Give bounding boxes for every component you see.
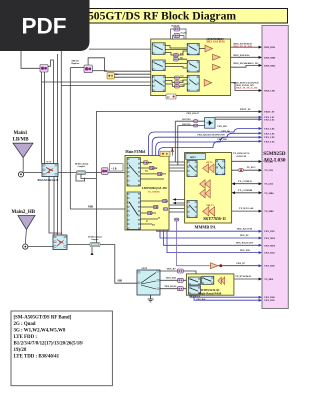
svg-text:PRX_B12/17: PRX_B12/17 <box>187 113 200 115</box>
svg-text:PRX_B28: PRX_B28 <box>218 126 228 128</box>
svg-text:PRX_MB6: PRX_MB6 <box>264 238 276 240</box>
svg-text:[SM-A505GT/DS RF Band]: [SM-A505GT/DS RF Band] <box>14 316 72 321</box>
svg-text:PRX_B39: PRX_B39 <box>240 250 251 252</box>
ground below SP4T <box>148 295 154 302</box>
filter F16 <box>163 199 168 202</box>
svg-text:(3x41): (3x41) <box>181 31 187 34</box>
amplifier LNA2 <box>213 54 221 60</box>
wire <box>194 295 259 300</box>
svg-text:TX_B/2/5/+66: TX_B/2/5/+66 <box>239 207 254 210</box>
svg-text:DRX_MB0: DRX_MB0 <box>264 57 276 59</box>
wire <box>92 70 107 72</box>
svg-text:+9/26/5/28: +9/26/5/28 <box>236 156 247 158</box>
svg-text:DRX LNA FEM: DRX LNA FEM <box>207 41 226 44</box>
wire <box>108 172 125 174</box>
wire <box>49 177 57 234</box>
svg-text:S5M925D: S5M925D <box>263 151 286 157</box>
switch SW4 <box>187 43 199 54</box>
wire <box>235 183 259 185</box>
svg-text:TRX_B7: TRX_B7 <box>167 268 177 271</box>
switch SW10 <box>187 200 197 217</box>
wire <box>160 230 259 238</box>
wire <box>179 78 187 87</box>
svg-text:PRX_HB5: PRX_HB5 <box>264 231 275 233</box>
MIPI box <box>186 153 206 159</box>
pin DRX_LB0 of U1 <box>259 89 276 93</box>
svg-text:2G : Quad: 2G : Quad <box>14 322 36 327</box>
svg-text:TX_LB9: TX_LB9 <box>264 170 273 172</box>
pin PRX_HB4 of U1 <box>259 251 276 255</box>
svg-text:LB PA: LB PA <box>206 161 213 164</box>
switch SW1 <box>152 43 165 55</box>
pin PRX_MB0 of U1 <box>259 244 276 248</box>
wire <box>165 78 174 87</box>
svg-text:TX_LB0: TX_LB0 <box>264 162 273 164</box>
coupler CP2 bi-directional <box>90 243 100 247</box>
svg-text:PRX_B40: PRX_B40 <box>197 299 206 301</box>
wire <box>24 172 43 174</box>
power amplifier PA2 <box>200 180 211 189</box>
filter F5 <box>175 85 180 88</box>
filter F7 B38/41 <box>174 27 180 31</box>
wire <box>165 46 187 56</box>
svg-text:B12/17: B12/17 <box>146 162 151 164</box>
wire <box>42 81 151 83</box>
wire <box>140 201 162 224</box>
power amplifier PA4 HB <box>203 207 215 216</box>
ground coupler2 arrow <box>90 252 93 255</box>
svg-text:PRX_B34/4: PRX_B34/4 <box>190 296 200 298</box>
pin PRX_HB0 of U1 <box>259 296 276 300</box>
filter F2 <box>174 58 179 61</box>
arrow TX_COMLB <box>232 182 235 185</box>
filter F3 <box>175 76 180 79</box>
svg-text:Main2_HB: Main2_HB <box>12 210 36 215</box>
wire <box>149 129 259 187</box>
wire <box>235 192 259 194</box>
svg-text:TX_B2-5: TX_B2-5 <box>247 167 257 169</box>
svg-text:B26: B26 <box>115 74 118 76</box>
pin PRX_LB4 of U1 <box>259 140 276 144</box>
svg-text:TX_MB6: TX_MB6 <box>264 211 274 213</box>
wire <box>177 221 211 266</box>
wire <box>199 65 259 67</box>
wire <box>67 244 90 246</box>
filter F15 <box>158 172 163 175</box>
wire <box>76 174 85 181</box>
svg-text:DRX_B2/34b/B66/2_W2: DRX_B2/34b/B66/2_W2 <box>234 62 260 65</box>
filter F23 <box>178 269 184 273</box>
svg-text:505GT/DS RF Block Diagram: 505GT/DS RF Block Diagram <box>88 10 236 23</box>
wire <box>156 137 259 198</box>
amplifier LNA3 <box>213 64 221 70</box>
switch SW13 <box>188 286 200 294</box>
wire <box>199 48 205 50</box>
wire <box>160 271 196 276</box>
wire <box>48 60 54 164</box>
wire <box>89 48 151 50</box>
filter F6 B7 <box>166 94 176 99</box>
wire <box>86 172 102 174</box>
svg-text:PRX_HB4: PRX_HB4 <box>264 253 275 255</box>
wire <box>53 177 55 236</box>
svg-text:PRX_HB6: PRX_HB6 <box>264 266 275 268</box>
pin TX_LB4 of U1 <box>259 182 274 186</box>
svg-text:B7: B7 <box>146 221 148 223</box>
svg-text:LMSW8KQG5-J50: LMSW8KQG5-J50 <box>142 186 168 190</box>
wire <box>100 245 137 284</box>
wire <box>164 230 259 245</box>
test point arrow on FEMid top <box>171 148 174 156</box>
switch U8 SP4T <box>137 270 160 295</box>
switch SW12 <box>188 277 200 285</box>
wire <box>190 295 259 297</box>
wire <box>160 288 188 290</box>
switch SW14 <box>202 276 214 284</box>
svg-text:TX_HB0: TX_HB0 <box>264 279 274 281</box>
pin DRX_MB0 of U1 <box>259 56 277 60</box>
wire <box>175 121 178 165</box>
svg-text:PRXT_IN: PRXT_IN <box>264 112 274 114</box>
antenna ANT1 Main1 <box>13 143 33 172</box>
svg-text:TX_B7/34/40/41: TX_B7/34/40/41 <box>235 276 252 278</box>
pin PRX_HB5 of U1 <box>259 230 276 234</box>
wire <box>212 83 259 91</box>
svg-text:B41: B41 <box>181 76 184 78</box>
svg-text:B20/26: B20/26 <box>152 168 157 170</box>
wire <box>140 163 166 180</box>
svg-text:B39: B39 <box>180 53 183 55</box>
svg-text:B8: B8 <box>160 174 162 176</box>
pin DRX_MB2 of U1 <box>259 64 277 68</box>
svg-text:PRXT_IN: PRXT_IN <box>240 108 251 111</box>
svg-text:B1: B1 <box>166 201 168 203</box>
pin TX_LB0 of U1 <box>259 160 274 164</box>
svg-text:TRX_B34/9: TRX_B34/9 <box>164 285 177 288</box>
svg-text:B66: B66 <box>152 224 155 226</box>
svg-text:MMMB PA: MMMB PA <box>195 224 216 229</box>
wire <box>152 133 259 192</box>
svg-text:~ LB: ~ LB <box>111 167 117 170</box>
filter F9 diplexer <box>102 168 109 175</box>
svg-text:PRX_LB4: PRX_LB4 <box>264 141 275 143</box>
switch SW8 ASM2 <box>127 192 140 230</box>
node PRX_B7 dot <box>220 264 223 267</box>
PDF badge overlay <box>0 0 90 51</box>
svg-text:PRX_B26: PRX_B26 <box>218 139 228 141</box>
pin TX_LB9 of U1 <box>259 169 274 173</box>
wire <box>61 85 150 87</box>
svg-text:B3: B3 <box>156 207 158 209</box>
svg-text:PRX_LB9: PRX_LB9 <box>264 137 275 139</box>
svg-text:19)/28: 19)/28 <box>14 348 27 353</box>
IC U1 S5M925D RF transceiver <box>262 26 288 309</box>
switch SW6 <box>187 75 199 91</box>
pin TX_MB0 of U1 <box>259 191 275 195</box>
svg-text:HB: HB <box>118 279 122 283</box>
wire <box>176 200 185 204</box>
pin PRX_HB2 of U1 <box>259 299 276 303</box>
filter F17 <box>154 205 159 208</box>
svg-text:Coupler: Coupler <box>78 166 86 168</box>
wire <box>159 141 259 204</box>
wire <box>41 72 43 164</box>
svg-text:PRX_LB0: PRX_LB0 <box>264 129 275 131</box>
wire <box>70 68 125 209</box>
pin TX_HB0 of U1 <box>259 278 274 282</box>
svg-text:LB/MB: LB/MB <box>13 138 30 143</box>
arrow TX2 into FEMid <box>173 202 177 205</box>
coupler CP1 bi-directional <box>77 171 86 175</box>
matching network box <box>110 164 124 171</box>
wire <box>21 51 40 68</box>
wire <box>169 162 185 171</box>
svg-text:TX_COMLB: TX_COMLB <box>238 180 252 183</box>
svg-text:DRX_HB0: DRX_HB0 <box>264 47 275 49</box>
svg-text:LTE FDD :: LTE FDD : <box>14 335 38 340</box>
power amplifier PA3 <box>200 189 211 198</box>
amplifier LNA4 <box>204 79 212 86</box>
wire <box>234 278 259 280</box>
filter F4 <box>175 81 180 84</box>
filter F8 B41 <box>174 34 180 38</box>
svg-text:B66: B66 <box>181 84 184 86</box>
component mini box on FEMid top <box>160 151 170 156</box>
svg-text:B40 TRX: B40 TRX <box>182 124 191 126</box>
wire <box>58 172 77 174</box>
svg-text:PDF: PDF <box>22 14 67 39</box>
svg-text:DPDT: DPDT <box>56 232 63 235</box>
wire <box>232 210 259 212</box>
module U9 High-Band PAM <box>186 274 234 295</box>
svg-text:PRX_B20/26/5/18/19/W5/W8: PRX_B20/26/5/18/19/W5/W8 <box>198 135 226 137</box>
wire <box>218 265 259 267</box>
wire <box>91 247 93 252</box>
module U5 Main FEMid <box>125 156 169 231</box>
pin PRX_LB1 of U1 <box>259 116 276 120</box>
filter F13 <box>144 161 149 164</box>
pin PRX_LB2 of U1 <box>259 118 276 122</box>
svg-text:PRX_B7: PRX_B7 <box>237 263 246 265</box>
svg-text:Main1: Main1 <box>14 131 28 136</box>
wire <box>44 72 46 164</box>
switch SW7 ASM1 <box>127 158 140 187</box>
module U2 DRX LNA FEM <box>151 38 231 96</box>
switch SW3 <box>152 75 165 91</box>
amplifier LNA5 <box>211 263 219 269</box>
power amplifier PA1 LB <box>203 164 214 173</box>
wire <box>215 117 259 119</box>
filter F10 <box>40 65 48 73</box>
filter F22 <box>194 124 198 127</box>
pin PRXT_IN of U1 <box>259 110 275 114</box>
wire <box>70 67 84 69</box>
arrow TX into FEMid <box>173 198 177 201</box>
wire <box>220 56 259 58</box>
svg-text:SP4T: SP4T <box>142 267 148 270</box>
svg-text:PRX_LB2: PRX_LB2 <box>264 119 275 121</box>
component U7 RX SAW <box>205 118 215 129</box>
pin PRX_LB6 of U1 <box>259 132 276 136</box>
svg-text:PRX_HB2: PRX_HB2 <box>264 300 275 302</box>
switch U3 SP10 BGSX22K5A10 <box>42 164 58 177</box>
filter F1 <box>174 53 179 56</box>
filter F11 MB-LB diplexer <box>84 65 92 73</box>
svg-text:SP10: SP10 <box>46 161 52 164</box>
svg-text:TX_COMMB: TX_COMMB <box>238 189 253 192</box>
wire <box>225 169 259 171</box>
wire <box>114 76 151 78</box>
pin DRX_HB0 of U1 <box>259 46 276 50</box>
svg-text:DRX_B34/W34: DRX_B34/W34 <box>234 54 251 57</box>
svg-text:MIPI: MIPI <box>190 156 196 159</box>
svg-text:Diplexer: Diplexer <box>72 63 80 65</box>
pin PRX_LB9 of U1 <box>259 136 276 140</box>
svg-text:B4: B4 <box>158 217 160 219</box>
svg-text:TRX_B41: TRX_B41 <box>166 277 177 280</box>
svg-text:DRX_LB0: DRX_LB0 <box>264 91 275 93</box>
label Main1 LB/MB <box>13 131 30 143</box>
filter F24 <box>178 278 184 282</box>
wire <box>167 230 259 253</box>
svg-text:PRX_HB0: PRX_HB0 <box>264 297 275 299</box>
amplifier LNA1 <box>205 45 213 52</box>
svg-text:PRX_B3/4/5/1/66: PRX_B3/4/5/1/66 <box>236 243 254 245</box>
switch U4 DPDT <box>53 235 67 250</box>
arrow TX_COMMB <box>232 191 235 194</box>
svg-text:PRX_B1: PRX_B1 <box>240 235 249 237</box>
svg-text:B(38/41): B(38/41) <box>172 24 180 27</box>
power amplifier PA5 HB <box>218 277 225 284</box>
wire <box>157 230 259 231</box>
wire <box>178 125 205 127</box>
svg-text:SKY77656-11: SKY77656-11 <box>203 217 226 221</box>
svg-text:MB PA: MB PA <box>207 204 215 207</box>
filter F21 <box>194 120 198 123</box>
wire <box>169 205 185 212</box>
note box RF bands <box>11 311 112 386</box>
svg-text:TX_LB4: TX_LB4 <box>264 184 273 186</box>
svg-text:B41 TRX: B41 TRX <box>182 119 191 121</box>
filter F12 <box>107 73 114 79</box>
svg-text:PRX_B2/5/1/66: PRX_B2/5/1/66 <box>237 228 253 230</box>
svg-text:Coupler: Coupler <box>91 239 99 241</box>
node feed1 <box>18 172 23 177</box>
module U6 MMMB PA SKY77656-11 <box>185 153 232 224</box>
wire <box>160 279 188 281</box>
wire <box>114 73 151 75</box>
switch SW9 <box>187 161 197 177</box>
svg-text:B34: B34 <box>181 80 184 82</box>
wire <box>97 111 259 242</box>
svg-text:PRX_MB0: PRX_MB0 <box>264 245 276 247</box>
pin PRX_LB0 of U1 <box>259 127 276 131</box>
wire <box>81 174 97 178</box>
wire <box>225 160 259 162</box>
filter F25 <box>178 287 184 291</box>
pin PRX_HB6 of U1 <box>259 264 276 268</box>
svg-text:DRX_MB2: DRX_MB2 <box>264 65 276 67</box>
switch SW5 <box>187 61 199 72</box>
pin TX_MB6 of U1 <box>259 210 275 214</box>
title bar <box>86 9 288 24</box>
switch SW11 <box>216 160 225 175</box>
wire <box>88 58 151 71</box>
filter F20 <box>175 218 179 221</box>
svg-text:DRX_T9_39_45D: DRX_T9_39_45D <box>234 45 252 48</box>
svg-text:PRX_B8: PRX_B8 <box>222 131 231 133</box>
svg-text:PRX_LB6: PRX_LB6 <box>264 133 275 135</box>
wire <box>57 54 59 235</box>
svg-text:Main FEMid: Main FEMid <box>125 150 145 154</box>
wire <box>213 47 259 48</box>
wire <box>28 246 53 248</box>
svg-text:TX_AND/M2: TX_AND/M2 <box>148 191 160 194</box>
switch SW2 <box>152 60 165 71</box>
wire <box>175 120 204 122</box>
wire <box>165 59 187 68</box>
svg-text:BGSX22K5A10: BGSX22K5A10 <box>38 178 59 182</box>
component C1 red dot <box>239 169 244 172</box>
wire loop diplexer B38/41 <box>171 29 187 39</box>
svg-text:B28: B28 <box>145 170 148 172</box>
svg-text:B1/2/3/4/7/8/12(17)/13/20/26(5: B1/2/3/4/7/8/12(17)/13/20/26(5/18/ <box>14 342 84 347</box>
svg-text:High-Band PAM: High-Band PAM <box>199 292 222 296</box>
pin PRX_MB6 of U1 <box>259 237 276 241</box>
svg-text:B40: B40 <box>180 58 183 60</box>
svg-text:3G : W1,W2,W4,W5,W8: 3G : W1,W2,W4,W5,W8 <box>14 329 66 334</box>
svg-text:B2: B2 <box>150 213 152 215</box>
svg-text:LTE TDD : B38/40/41: LTE TDD : B38/40/41 <box>14 355 60 360</box>
filter F18 <box>148 211 153 214</box>
filter F14 <box>150 166 155 169</box>
node feed2 <box>23 244 28 249</box>
svg-text:MB: MB <box>88 205 93 209</box>
svg-text:TX_MB0: TX_MB0 <box>264 193 274 195</box>
filter F19 <box>164 208 168 211</box>
antenna ANT2 Main2 <box>18 216 35 245</box>
svg-text:DRX_T8_T9_25_4M: DRX_T8_T9_25_4M <box>236 87 258 90</box>
wire <box>60 51 62 235</box>
